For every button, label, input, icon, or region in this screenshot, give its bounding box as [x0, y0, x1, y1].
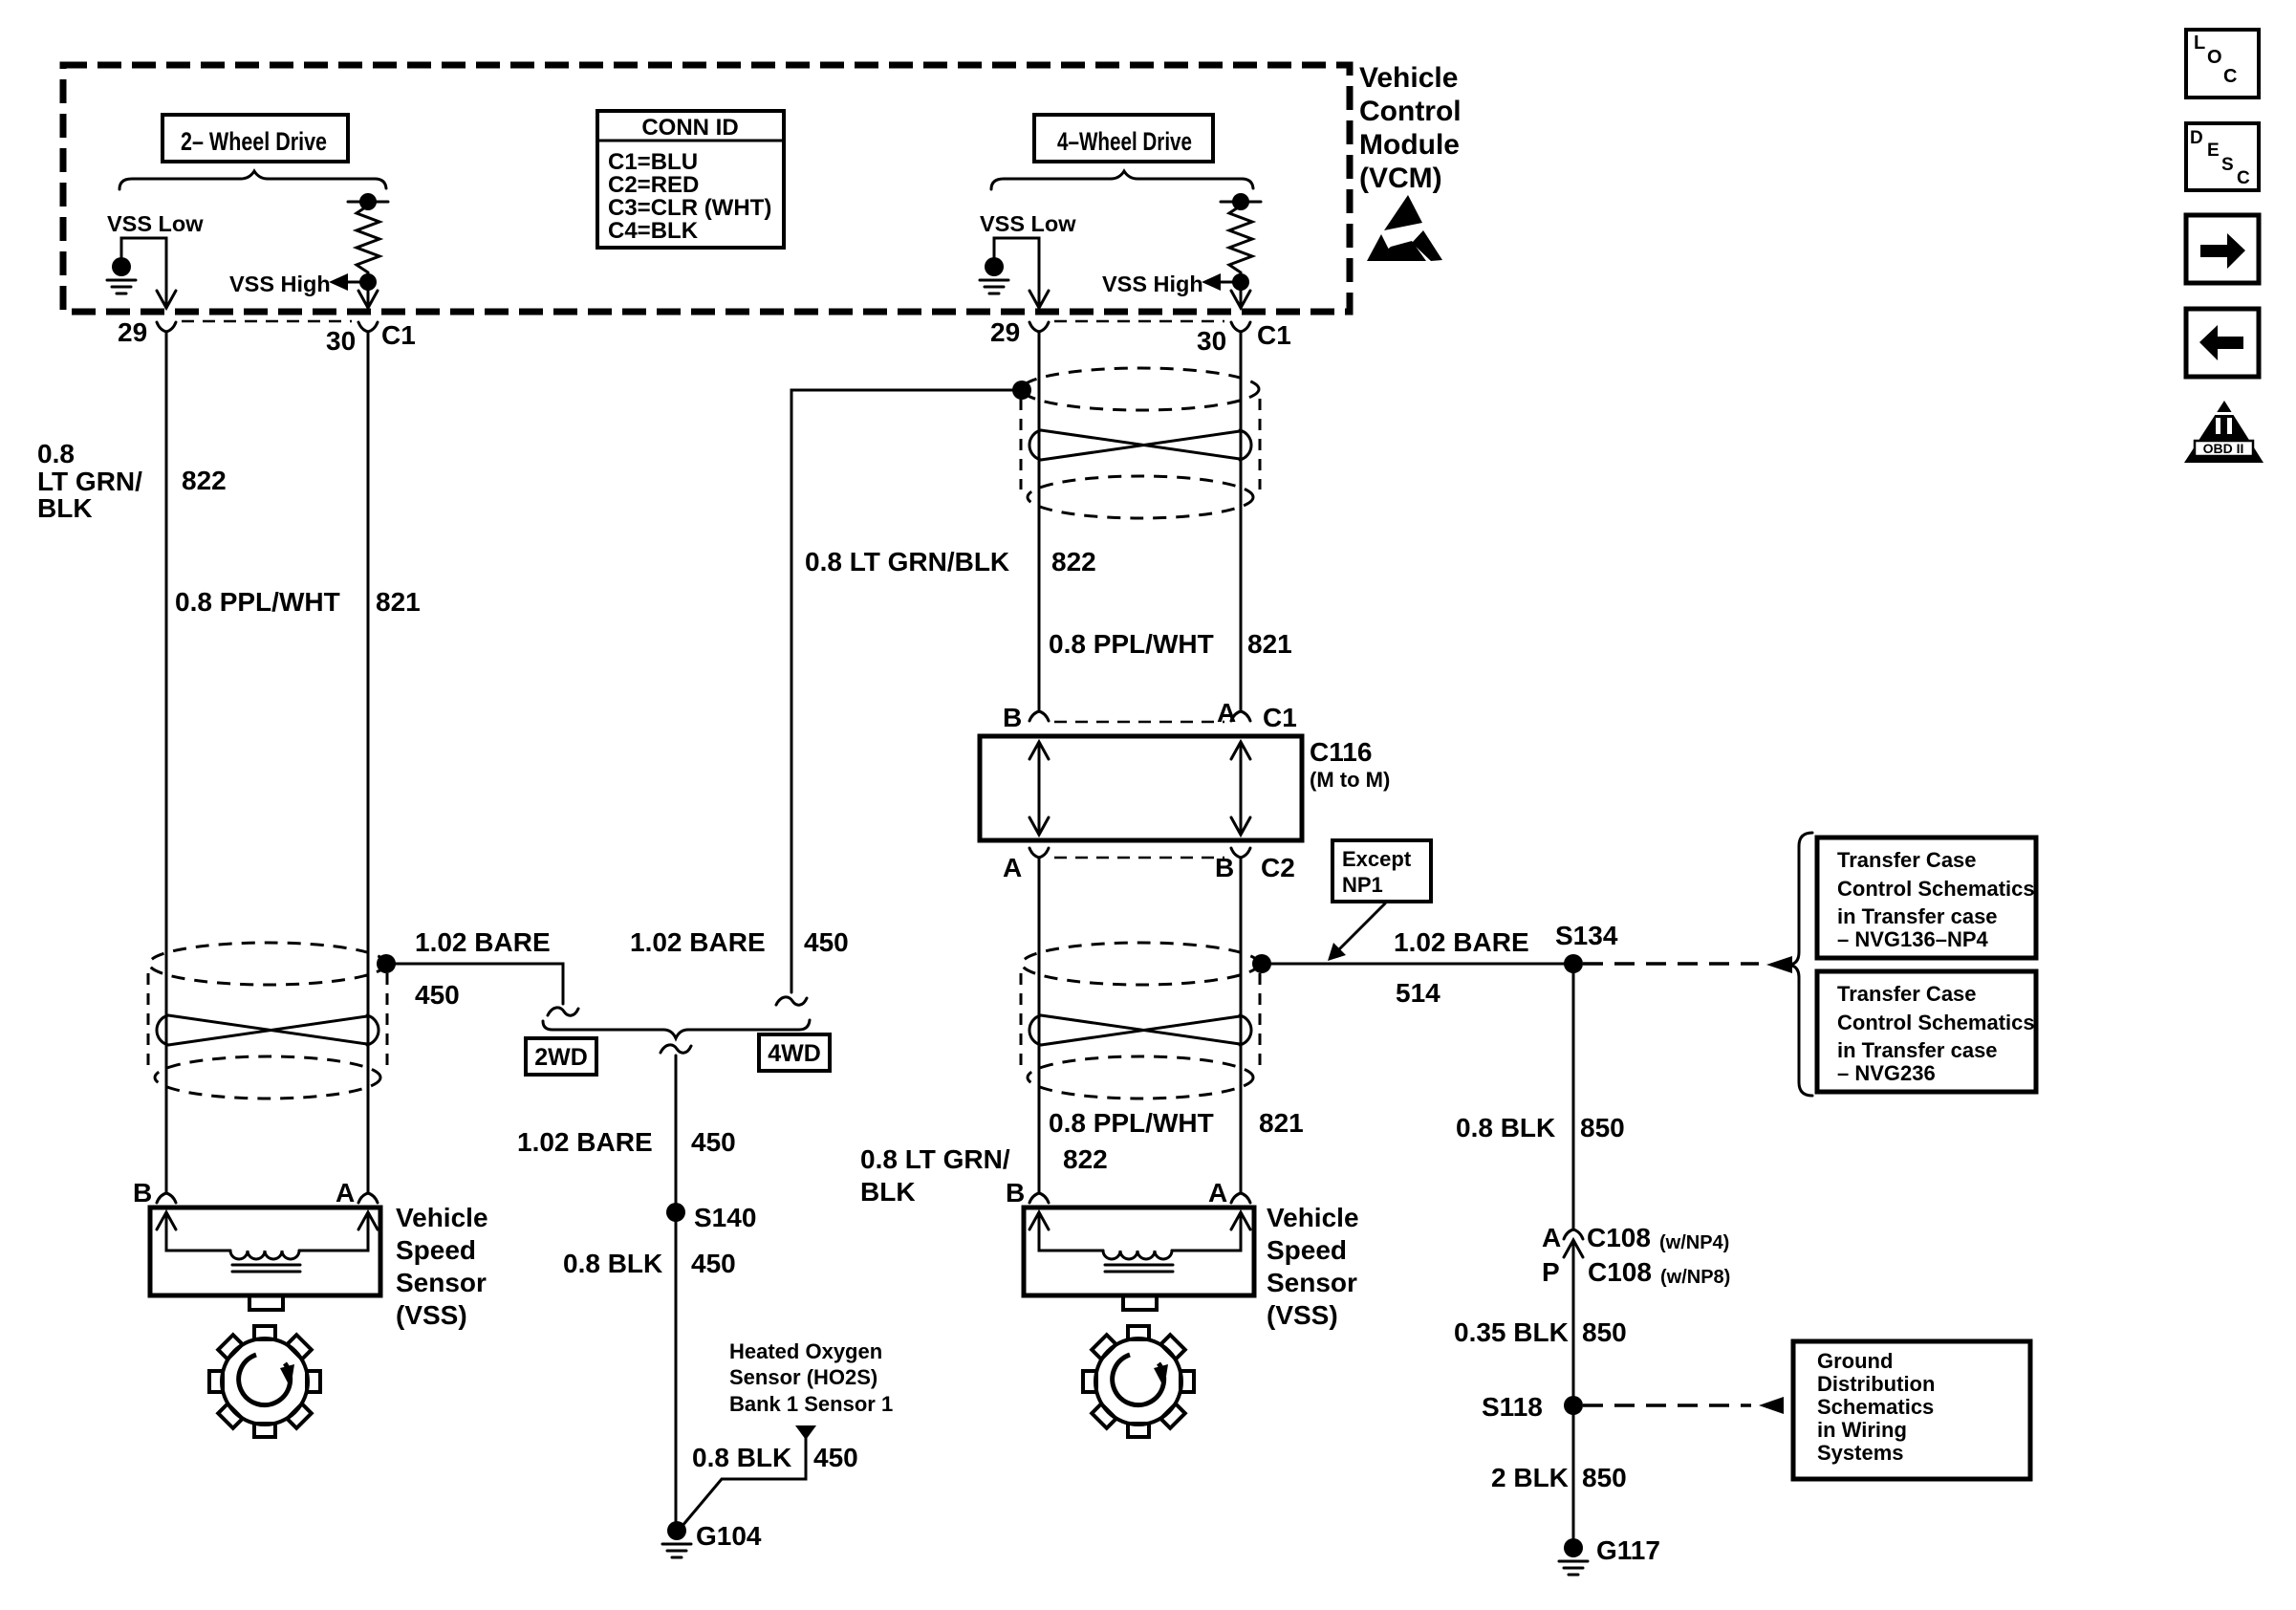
svg-text:C1: C1 [381, 320, 416, 350]
label C108 (w/NP4) [1587, 1223, 1729, 1253]
svg-text:C3=CLR (WHT): C3=CLR (WHT) [608, 195, 771, 221]
svg-text:C: C [2237, 168, 2250, 188]
svg-text:4WD: 4WD [768, 1040, 821, 1067]
ground symbol VSS Low (4WD) [980, 257, 1008, 294]
svg-text:P: P [1542, 1257, 1560, 1287]
VSS mounting stub (4WD) [1123, 1295, 1157, 1310]
svg-text:Sensor (HO2S): Sensor (HO2S) [729, 1365, 877, 1389]
shielded twisted pair symbol (2WD pair): top ellipse [149, 943, 386, 985]
wire resistor to pin 30 (4WD) [1240, 282, 1243, 308]
wire 514 BARE from shield to S134 [1271, 963, 1568, 966]
pin B female terminal below C116 [1231, 848, 1250, 858]
pin 30 female terminal (2WD) [358, 322, 378, 332]
label Heated Oxygen Sensor (HO2S) Bank 1 Sensor 1 [729, 1339, 893, 1416]
svg-text:850: 850 [1582, 1463, 1627, 1492]
C116 pass-through arrow (right) [1231, 742, 1250, 835]
svg-text:BLK: BLK [37, 493, 93, 523]
VSS mounting stub (2WD) [249, 1295, 283, 1310]
svg-text:Control Schematics: Control Schematics [1837, 1011, 2035, 1034]
svg-text:S: S [2221, 155, 2234, 175]
svg-text:Transfer Case: Transfer Case [1837, 982, 1977, 1006]
male pin arrow at 30 (2WD) [358, 291, 378, 308]
CONN ID table box [597, 111, 784, 248]
connector C108: male arrow half [1564, 1240, 1583, 1257]
label VCM: Vehicle Control Module text [1359, 62, 1462, 194]
arrowhead at ground note box [1759, 1397, 1784, 1414]
wire 822 LT GRN/BLK (2WD) vertical [165, 332, 168, 1193]
svg-text:O: O [2207, 47, 2222, 68]
svg-text:Distribution: Distribution [1817, 1372, 1935, 1396]
VSS internal pickup coil circuit (4WD) [1029, 1212, 1250, 1272]
svg-text:Ground: Ground [1817, 1349, 1893, 1373]
wire VSS Low to pin 29 (4WD) [994, 238, 1039, 308]
arrow from HO2S (filled triangle down) [795, 1425, 816, 1440]
svg-text:(w/NP4): (w/NP4) [1659, 1232, 1729, 1253]
svg-text:S118: S118 [1482, 1392, 1543, 1422]
svg-text:D: D [2190, 128, 2203, 148]
wire 821 (4WD) VCM to C116 [1240, 332, 1243, 709]
svg-text:1.02 BARE: 1.02 BARE [630, 927, 766, 957]
svg-text:822: 822 [1051, 547, 1096, 577]
wire break squiggle (4WD drain) [776, 997, 807, 1005]
shield bottom ellipse (2WD pair) [155, 1056, 380, 1099]
male pin arrow at 30 (4WD) [1231, 291, 1250, 308]
shielded twisted pair symbol (4WD upper pair): top ellipse [1022, 368, 1259, 410]
svg-text:(w/NP8): (w/NP8) [1660, 1267, 1730, 1288]
resistor internal VCM (2WD) [348, 193, 388, 277]
icon DESC box [2186, 123, 2259, 190]
brace under 2-Wheel Drive label [119, 171, 386, 189]
male pin arrow at 29 (2WD) [157, 291, 176, 308]
wire 450 BARE drain (2WD) to splice area [394, 964, 563, 1004]
svg-text:A: A [1217, 698, 1236, 728]
pin B female terminal (2WD VSS) [157, 1193, 176, 1203]
shield side dashes (4WD lower pair) [1021, 973, 1260, 1070]
pin A female terminal (2WD VSS) [358, 1193, 378, 1203]
pin B female terminal above C116 [1029, 711, 1049, 721]
svg-text:in Transfer case: in Transfer case [1837, 1038, 1998, 1062]
svg-text:0.8 BLK: 0.8 BLK [1456, 1113, 1555, 1142]
svg-text:– NVG236: – NVG236 [1837, 1061, 1936, 1085]
svg-text:Except: Except [1342, 847, 1412, 871]
wire 450 BARE drain (4WD) long run [791, 390, 1014, 992]
svg-text:850: 850 [1582, 1317, 1627, 1347]
svg-text:A: A [336, 1178, 355, 1207]
label box 2WD [526, 1038, 596, 1075]
node VSS High junction dot (2WD) [359, 273, 377, 291]
wire break squiggle above common drain [661, 1045, 691, 1053]
svg-text:1.02 BARE: 1.02 BARE [1394, 927, 1529, 957]
pin A female terminal above C116 [1231, 711, 1250, 721]
note box Transfer Case NVG136-NP4 [1817, 838, 2036, 958]
connector C108: female half [1564, 1229, 1583, 1239]
svg-text:C1=BLU: C1=BLU [608, 149, 698, 175]
label box Except NP1 [1332, 840, 1431, 902]
coil core lines (4WD VSS) [1105, 1265, 1173, 1272]
pin 29 female terminal (4WD) [1029, 322, 1049, 332]
brace under 4-Wheel Drive label [991, 171, 1253, 189]
svg-text:Vehicle: Vehicle [396, 1203, 488, 1232]
node splice S140 [666, 1203, 685, 1222]
svg-text:30: 30 [326, 326, 356, 356]
svg-text:Schematics: Schematics [1817, 1395, 1934, 1419]
svg-text:1.02 BARE: 1.02 BARE [517, 1127, 653, 1157]
svg-text:B: B [1006, 1178, 1025, 1207]
dashed connector row above C116 [1054, 721, 1224, 724]
brace joining 2WD/4WD drains [543, 1020, 810, 1038]
svg-text:OBD II: OBD II [2203, 441, 2244, 456]
svg-text:VSS Low: VSS Low [980, 211, 1076, 236]
svg-text:850: 850 [1580, 1113, 1625, 1142]
connector row C1 pins 29/30 (4WD): dashed line [1054, 320, 1224, 323]
svg-text:2 BLK: 2 BLK [1491, 1463, 1569, 1492]
wire 850 BLK from C108 down [1572, 1242, 1575, 1539]
label C116 (M to M) [1310, 737, 1390, 792]
svg-text:C: C [2223, 66, 2237, 87]
svg-text:821: 821 [376, 587, 421, 617]
svg-text:0.8 PPL/WHT: 0.8 PPL/WHT [1049, 629, 1214, 659]
svg-text:CONN ID: CONN ID [641, 115, 738, 141]
wire 450 common drain down to G104 [675, 1055, 678, 1524]
ground G104 [662, 1521, 691, 1557]
svg-text:822: 822 [182, 466, 227, 495]
icon OBD II triangle [2184, 401, 2264, 463]
svg-text:LT GRN/: LT GRN/ [37, 467, 142, 496]
svg-text:VSS Low: VSS Low [107, 211, 204, 236]
wire break squiggle (2WD drain) [548, 1008, 578, 1015]
svg-text:822: 822 [1063, 1144, 1108, 1174]
svg-text:G117: G117 [1596, 1535, 1660, 1565]
svg-text:Control: Control [1359, 96, 1462, 127]
svg-text:4–Wheel Drive: 4–Wheel Drive [1057, 127, 1192, 156]
svg-text:Sensor: Sensor [1267, 1268, 1357, 1297]
svg-text:450: 450 [691, 1249, 736, 1278]
svg-text:C1: C1 [1263, 703, 1297, 732]
VCM module dashed outline box [63, 65, 1350, 312]
twisted pair bowtie (2WD pair) [157, 1015, 379, 1045]
label Vehicle Speed Sensor (VSS) (2WD) [396, 1203, 488, 1330]
label VSS High (2WD) with arrow [229, 272, 361, 296]
svg-text:821: 821 [1247, 629, 1292, 659]
dashed reference wire from S118 to ground note [1583, 1403, 1751, 1407]
shield bottom ellipse (4WD lower pair) [1028, 1056, 1253, 1099]
svg-text:(VSS): (VSS) [396, 1300, 467, 1330]
svg-text:S140: S140 [694, 1203, 756, 1232]
dashed reference wire from S134 to transfer case note [1583, 962, 1759, 966]
svg-text:Speed: Speed [396, 1235, 476, 1265]
svg-text:A: A [1003, 853, 1022, 882]
svg-text:B: B [1215, 853, 1234, 882]
label VSS High (4WD) with arrow [1102, 272, 1234, 296]
svg-text:450: 450 [415, 980, 460, 1010]
shield side dashes (2WD pair) [148, 973, 387, 1070]
node splice S118 [1564, 1396, 1583, 1415]
twisted pair bowtie (4WD lower pair) [1029, 1015, 1251, 1045]
svg-text:Bank 1 Sensor 1: Bank 1 Sensor 1 [729, 1392, 893, 1416]
svg-text:C108: C108 [1587, 1223, 1651, 1252]
icon left-arrow box [2186, 309, 2259, 377]
svg-text:– NVG136–NP4: – NVG136–NP4 [1837, 927, 1989, 951]
pin A female terminal (4WD VSS) [1231, 1193, 1250, 1203]
svg-text:Transfer Case: Transfer Case [1837, 848, 1977, 872]
svg-text:C116: C116 [1310, 737, 1372, 767]
svg-text:Systems: Systems [1817, 1441, 1904, 1465]
node VSS High junction dot (4WD) [1232, 273, 1249, 291]
svg-text:BLK: BLK [860, 1177, 916, 1207]
svg-text:S134: S134 [1555, 921, 1618, 950]
svg-text:0.35 BLK: 0.35 BLK [1454, 1317, 1569, 1347]
svg-text:C2: C2 [1261, 853, 1295, 882]
arrow from Except NP1 to wire 514 [1328, 903, 1385, 961]
svg-text:VSS High: VSS High [229, 272, 331, 296]
node: shield drain tap dot (2WD) [377, 954, 396, 973]
svg-text:in Transfer case: in Transfer case [1837, 904, 1998, 928]
svg-text:0.8 PPL/WHT: 0.8 PPL/WHT [1049, 1108, 1214, 1138]
wire 821 (4WD) C116 to VSS [1240, 858, 1243, 1193]
node splice S134 [1564, 954, 1583, 973]
svg-text:L: L [2194, 33, 2205, 54]
note box Transfer Case NVG236 [1817, 971, 2036, 1092]
svg-text:2WD: 2WD [534, 1044, 588, 1071]
svg-text:29: 29 [990, 317, 1020, 347]
coil core lines (2WD VSS) [232, 1265, 300, 1272]
label Vehicle Speed Sensor (VSS) (4WD) [1267, 1203, 1359, 1330]
svg-text:(VSS): (VSS) [1267, 1300, 1338, 1330]
svg-text:(M to M): (M to M) [1310, 768, 1390, 792]
ground symbol VSS Low (2WD) [107, 257, 136, 294]
wire 822 (4WD) VCM to C116 [1038, 332, 1041, 709]
pin 30 female terminal (4WD) [1231, 322, 1250, 332]
label box 4WD [759, 1034, 830, 1071]
wire VSS Low to pin 29 (2WD) [121, 238, 166, 308]
C116 pass-through arrow (left) [1029, 742, 1049, 835]
shield bottom ellipse (4WD upper pair) [1028, 476, 1253, 518]
svg-text:C4=BLK: C4=BLK [608, 218, 699, 244]
label box "4-Wheel Drive" [1034, 115, 1213, 162]
svg-text:1.02 BARE: 1.02 BARE [415, 927, 551, 957]
svg-text:in Wiring: in Wiring [1817, 1418, 1907, 1442]
svg-text:Module: Module [1359, 129, 1460, 161]
pin B female terminal (4WD VSS) [1029, 1193, 1049, 1203]
svg-text:Vehicle: Vehicle [1267, 1203, 1359, 1232]
svg-text:29: 29 [118, 317, 147, 347]
svg-text:450: 450 [691, 1127, 736, 1157]
svg-text:A: A [1542, 1223, 1561, 1252]
svg-text:Vehicle: Vehicle [1359, 62, 1458, 94]
svg-text:B: B [1003, 703, 1022, 732]
connector row C1 pins 29/30 (2WD): dashed line [182, 320, 352, 323]
shield side dashes (4WD upper pair) [1021, 399, 1260, 490]
wire resistor to pin 30 (2WD) [367, 282, 370, 308]
svg-text:Heated Oxygen: Heated Oxygen [729, 1339, 882, 1363]
tone wheel gear (4WD VSS) [1083, 1326, 1194, 1437]
node: shield drain tap dot (4WD upper) [1012, 381, 1031, 400]
pin 29 female terminal (2WD) [157, 322, 176, 332]
VSS sensor box (4WD) [1024, 1207, 1254, 1295]
svg-text:0.8 PPL/WHT: 0.8 PPL/WHT [175, 587, 340, 617]
shielded twisted pair symbol (4WD lower pair): top ellipse [1022, 943, 1259, 985]
svg-text:E: E [2207, 141, 2220, 161]
tone wheel gear (2WD VSS) [209, 1326, 320, 1437]
icon right-arrow box [2186, 215, 2259, 283]
ESD sensitivity symbol [1367, 195, 1442, 261]
svg-text:C108: C108 [1588, 1257, 1652, 1287]
brace for transfer case notes [1789, 833, 1812, 1096]
svg-text:0.8 LT GRN/: 0.8 LT GRN/ [860, 1144, 1010, 1174]
ground G117 [1559, 1538, 1588, 1575]
arrowhead at transfer case brace [1766, 956, 1792, 973]
wire 850 BLK from S134 down [1572, 964, 1575, 1229]
svg-text:0.8 BLK: 0.8 BLK [563, 1249, 662, 1278]
node: shield drain tap dot (4WD lower) [1252, 954, 1271, 973]
svg-text:Control Schematics: Control Schematics [1837, 877, 2035, 901]
wire 0.8 BLK 450 from HO2S to G104 [682, 1438, 806, 1527]
svg-text:450: 450 [813, 1443, 858, 1472]
pin A female terminal below C116 [1029, 848, 1049, 858]
male pin arrow at 29 (4WD) [1029, 291, 1049, 308]
svg-text:Speed: Speed [1267, 1235, 1347, 1265]
label 0.8 LT GRN/BLK (2WD) [37, 439, 142, 523]
svg-text:514: 514 [1396, 978, 1440, 1008]
label box "2- Wheel Drive" [162, 115, 348, 162]
wire 822 (4WD) C116 to VSS [1038, 858, 1041, 1193]
resistor internal VCM (4WD) [1221, 193, 1261, 277]
svg-text:VSS High: VSS High [1102, 272, 1203, 296]
svg-text:Sensor: Sensor [396, 1268, 487, 1297]
svg-text:C1: C1 [1257, 320, 1291, 350]
svg-text:G104: G104 [696, 1521, 762, 1551]
svg-text:(VCM): (VCM) [1359, 163, 1442, 194]
svg-text:0.8: 0.8 [37, 439, 75, 468]
dashed connector row below C116 [1054, 857, 1224, 859]
svg-text:A: A [1208, 1178, 1227, 1207]
svg-text:30: 30 [1197, 326, 1226, 356]
svg-text:C2=RED: C2=RED [608, 172, 699, 198]
label 0.8 LT GRN/ BLK (4WD lower) [860, 1144, 1010, 1207]
svg-text:0.8 BLK: 0.8 BLK [692, 1443, 791, 1472]
svg-text:NP1: NP1 [1342, 873, 1383, 897]
connector C116 box [980, 736, 1302, 840]
twisted pair bowtie (4WD upper pair) [1029, 430, 1251, 460]
svg-text:450: 450 [804, 927, 849, 957]
note box Ground Distribution Schematics [1793, 1341, 2030, 1479]
wire 821 PPL/WHT (2WD) vertical [367, 332, 370, 1193]
label C108 (w/NP8) [1588, 1257, 1730, 1288]
svg-text:0.8 LT GRN/BLK: 0.8 LT GRN/BLK [805, 547, 1009, 577]
svg-text:B: B [133, 1178, 152, 1207]
svg-text:821: 821 [1259, 1108, 1304, 1138]
svg-text:2– Wheel Drive: 2– Wheel Drive [181, 127, 327, 156]
VSS sensor box (2WD) [150, 1207, 380, 1295]
VSS internal pickup coil circuit (2WD) [157, 1212, 378, 1272]
icon LOC box [2186, 30, 2259, 98]
